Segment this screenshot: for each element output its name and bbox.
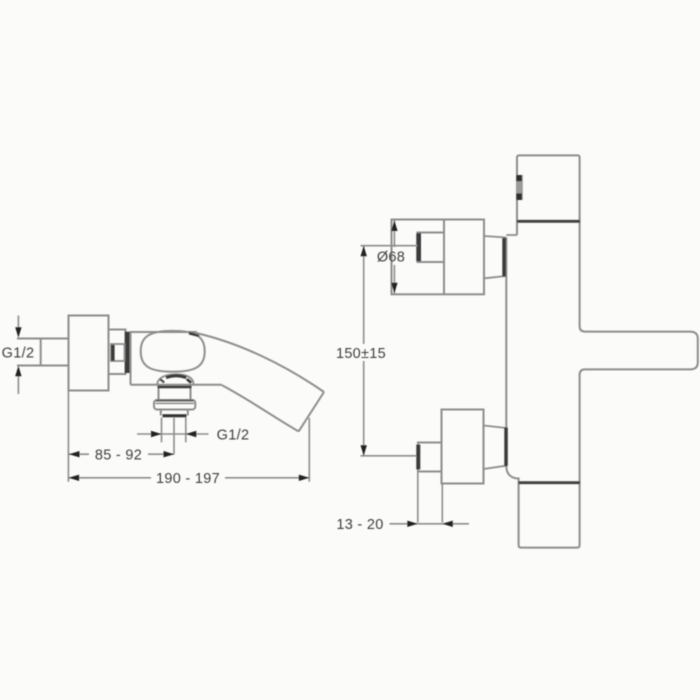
dim 13-20 line right segment with arrow [442,523,469,525]
dim 85-92 left segment with arrow [69,453,89,455]
outlet right extension line [185,418,187,443]
shower connector dark bar [502,238,506,277]
shower connector bottom edge [484,276,506,278]
bath cartridge dark left edge [416,445,420,470]
flange dark top edge [156,400,194,402]
shower cartridge dark left edge [416,233,421,261]
spout top edge [196,333,324,392]
spout bottom edge [222,385,299,431]
dim 150 vertical line upper segment [363,246,365,344]
bath escutcheon big rect [442,410,484,484]
step notch on left edge [506,234,517,236]
bath connector dark bar [504,428,508,467]
outlet dark face line [163,414,187,417]
knob ellipse [141,331,205,372]
shower escutcheon big rect [392,220,485,295]
body left edge [130,331,132,385]
shower connector top edge [484,236,506,238]
bath cartridge left rect [418,443,442,472]
bottom section dark divider [519,481,580,484]
G1/2 outlet dimension right segment with arrow [186,433,209,435]
svg-text:G1/2: G1/2 [217,428,250,444]
spout outlet extension line [308,418,310,482]
escutcheon dark interface bar [125,332,130,373]
spout end face [299,392,324,431]
neck left edge [158,386,160,401]
outlet column left edge [160,410,162,416]
dia 68 dimension upper segment [393,221,395,248]
shower escutcheon inner divider [443,220,445,295]
junction dark mark at dome right [187,379,191,383]
inlet pipe top edge [17,338,69,340]
wall plate [69,316,109,391]
escutcheon rect [109,330,126,375]
svg-text:150±15: 150±15 [336,346,386,362]
neck right edge [190,386,192,401]
cartridge small rect [111,344,125,361]
junction dark mark at dome left [160,379,164,382]
G1/2 outlet dimension left segment with arrow [137,433,162,435]
handle clip dark top dot [516,175,522,181]
main body outline [506,155,698,547]
shower cartridge small rect [418,233,445,263]
neck dark top line [158,386,192,388]
dim 85-92 right segment with arrow [148,453,174,455]
cartridge dark left edge [111,345,115,361]
svg-text:85 - 92: 85 - 92 [95,448,142,464]
svg-text:13 - 20: 13 - 20 [336,517,383,533]
dim 13-20 right extension line [441,483,443,522]
dim 150 vertical line lower segment [363,361,365,456]
G1/2 inlet dimension arrow up [15,366,21,377]
bath connector top edge [484,426,507,429]
G1/2 outlet dimension middle segment [162,433,186,435]
dim 13-20 left extension line [417,472,419,523]
handle clip dark bottom dot [516,193,522,200]
bath connector bottom edge [484,466,507,469]
body bottom line [131,384,223,386]
dim 150 top reference line [361,245,418,247]
svg-text:190 - 197: 190 - 197 [156,471,220,487]
outlet column right edge [187,410,189,416]
flange inner top line [156,402,195,404]
top section dark divider [517,220,580,223]
dia 68 dimension lower segment [393,265,395,293]
diverter dome [157,374,193,385]
dim 190-197 right segment with arrow [225,477,309,479]
handle clip gray bar [516,175,523,200]
outlet left extension line [161,418,163,443]
dim 150 bottom reference line [361,455,417,457]
svg-text:Ø68: Ø68 [377,249,405,265]
body top line [131,331,198,333]
flange rounded rect [154,400,195,410]
dim 190-197 left segment with arrow [69,477,151,479]
outlet centerline [173,418,175,455]
G1/2 inlet dimension line upper segment [17,316,19,332]
G1/2 inlet dimension lower segment [17,373,19,394]
dim 13-20 line left segment with arrow [390,523,418,525]
diverter dome dark cap [166,376,186,378]
junction dark mark at spout root [189,333,199,336]
dim 13-20 line middle segment [418,523,443,525]
inlet pipe left cap [40,339,42,366]
G1/2 inlet dimension arrow down [15,327,21,338]
svg-text:G1/2: G1/2 [2,346,35,362]
inlet pipe bottom edge [17,365,69,367]
wall extension line [67,391,69,482]
